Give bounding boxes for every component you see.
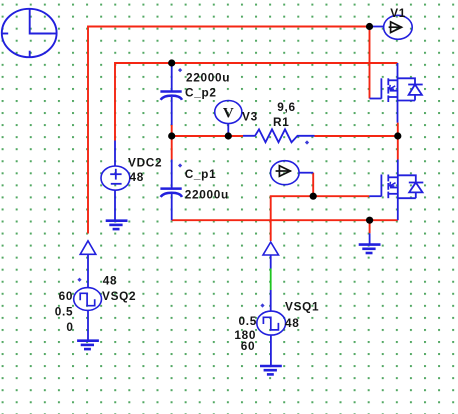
svg-text:60: 60 bbox=[241, 339, 256, 353]
svg-text:0.5: 0.5 bbox=[239, 314, 258, 328]
svg-text:60: 60 bbox=[59, 289, 74, 303]
svg-text:48: 48 bbox=[130, 170, 145, 184]
svg-text:48: 48 bbox=[285, 316, 300, 330]
svg-text:22000u: 22000u bbox=[186, 71, 230, 85]
svg-text:22000u: 22000u bbox=[185, 187, 229, 201]
svg-text:V: V bbox=[223, 105, 234, 121]
svg-text:V1: V1 bbox=[390, 6, 406, 20]
svg-text:0: 0 bbox=[66, 320, 73, 334]
svg-text:48: 48 bbox=[103, 274, 118, 288]
svg-text:C_p1: C_p1 bbox=[185, 167, 217, 181]
svg-text:VSQ2: VSQ2 bbox=[102, 289, 136, 303]
svg-text:9,6: 9,6 bbox=[277, 100, 296, 114]
svg-text:VSQ1: VSQ1 bbox=[285, 300, 319, 314]
svg-text:VDC2: VDC2 bbox=[128, 156, 162, 170]
svg-text:V3: V3 bbox=[242, 109, 258, 123]
svg-text:R1: R1 bbox=[273, 115, 289, 129]
svg-text:C_p2: C_p2 bbox=[185, 86, 217, 100]
svg-text:0.5: 0.5 bbox=[55, 305, 74, 319]
